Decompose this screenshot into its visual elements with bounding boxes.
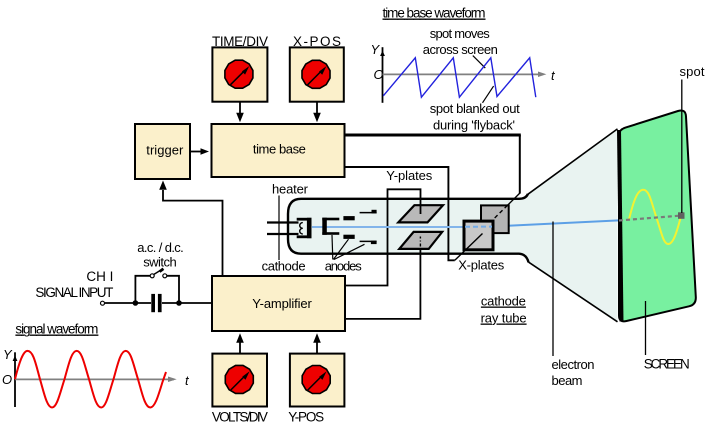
electron beam (dashed behind front X-plate)	[465, 226, 492, 228]
screen left edge (thick)	[619, 130, 622, 322]
cathode ray tube envelope (neck + funnel)	[288, 129, 618, 322]
input terminal	[101, 301, 105, 305]
spot	[678, 212, 685, 219]
switch lever	[154, 269, 164, 275]
TIME/DIV knob	[225, 60, 253, 88]
grey dashed beam on screen	[619, 216, 678, 221]
electron beam pointer line	[552, 222, 554, 357]
svg-text:X-plates: X-plates	[458, 258, 505, 273]
wire trigger to time base with arrow	[190, 151, 203, 153]
svg-text:beam: beam	[552, 373, 583, 388]
svg-text:anodes: anodes	[325, 259, 363, 274]
anodes pointer lines	[331, 235, 334, 260]
dash-dot wire end in bottom Y-plate	[419, 237, 421, 247]
wire TIME/DIV to time base with down arrow	[239, 102, 241, 114]
svg-text:SIGNAL INPUT: SIGNAL INPUT	[35, 285, 113, 300]
svg-text:spot blanked out: spot blanked out	[430, 101, 520, 116]
svg-text:Y: Y	[3, 347, 13, 362]
junction dot left	[133, 300, 139, 306]
svg-text:ray tube: ray tube	[481, 311, 527, 326]
red sine wave	[15, 351, 166, 408]
svg-text:Y-plates: Y-plates	[386, 168, 433, 183]
svg-text:Y: Y	[371, 42, 381, 57]
trigger box	[135, 124, 190, 179]
anode 3 top	[360, 212, 377, 214]
wire Y-amp to Y-POS with up arrow	[316, 342, 318, 353]
switch contact right	[163, 274, 167, 278]
front X-plate	[464, 221, 493, 250]
wire X-POS to time base with down arrow	[316, 102, 318, 114]
screen slab green face	[619, 110, 696, 321]
heater/cathode pointer line	[278, 196, 280, 261]
svg-text:VOLTS/DIV: VOLTS/DIV	[212, 410, 268, 425]
anode 3 bottom	[360, 240, 377, 242]
svg-text:CH I: CH I	[86, 269, 113, 284]
bottom Y-plate	[399, 232, 442, 249]
heater filament squiggle	[300, 223, 303, 234]
capacitor plates	[151, 294, 155, 312]
anode 1 (C-shape)	[322, 218, 339, 221]
svg-text:spot: spot	[680, 64, 705, 79]
time base t axis	[383, 73, 544, 75]
svg-text:trigger: trigger	[146, 143, 184, 158]
spot pointer line	[681, 80, 683, 214]
svg-text:O: O	[374, 67, 384, 82]
signal t axis	[15, 378, 174, 380]
electron beam (funnel segment)	[493, 220, 619, 226]
wire: Y-amp output 2 to bottom Y-plate	[344, 247, 420, 319]
svg-text:Y-amplifier: Y-amplifier	[252, 296, 312, 311]
back X-plate	[481, 205, 509, 233]
svg-text:heater: heater	[272, 182, 309, 197]
svg-text:Y-POS: Y-POS	[288, 410, 324, 425]
Y-amplifier box	[212, 276, 345, 331]
wire: Y-amp output 1 to top Y-plate (staple)	[344, 189, 421, 285]
pointer to falling edge	[483, 86, 494, 103]
svg-text:across screen: across screen	[423, 42, 498, 57]
cathode	[297, 218, 312, 221]
svg-text:signal waveform: signal waveform	[15, 322, 98, 337]
VOLTS/DIV knob	[225, 365, 253, 393]
anode 2 bars	[343, 216, 354, 220]
switch branch wires	[135, 276, 150, 303]
wire diagonal into front X-plate	[455, 234, 483, 261]
input wire right of capacitor	[162, 302, 212, 304]
X-POS knob box	[290, 47, 344, 101]
wire: time base output 2 to front X-plate	[344, 167, 455, 260]
svg-text:a.c. / d.c.: a.c. / d.c.	[137, 240, 184, 255]
electron beam (neck segment)	[312, 226, 464, 228]
TIME/DIV knob box	[212, 47, 267, 101]
top Y-plate	[398, 205, 443, 222]
X-POS knob	[302, 60, 330, 88]
VOLTS/DIV knob box	[212, 354, 267, 407]
svg-text:electron: electron	[552, 357, 595, 372]
Y-POS knob	[302, 365, 330, 393]
pointer to rising slope	[473, 56, 486, 69]
svg-text:TIME/DIV: TIME/DIV	[212, 34, 268, 49]
svg-text:spot moves: spot moves	[430, 26, 491, 41]
input wire left of capacitor	[105, 302, 151, 304]
wire: time base output 1 to back X-plate	[344, 134, 521, 137]
svg-text:during 'flyback': during 'flyback'	[433, 118, 515, 133]
heater wires	[267, 221, 299, 223]
wire Y-amp to trigger with arrow	[163, 190, 223, 276]
svg-text:time base: time base	[253, 142, 306, 157]
signal waveform Y axis	[14, 352, 16, 407]
svg-text:O: O	[2, 372, 12, 387]
svg-text:SCREEN: SCREEN	[644, 357, 690, 372]
Y-POS knob box	[290, 354, 345, 407]
time base Y axis	[382, 47, 384, 103]
wire Y-amp to VOLTS/DIV with up arrow	[239, 342, 241, 353]
junction dot right	[176, 300, 182, 306]
svg-text:time base waveform: time base waveform	[383, 6, 486, 21]
svg-text:cathode: cathode	[481, 294, 526, 309]
blue sawtooth	[383, 58, 536, 97]
svg-text:cathode: cathode	[262, 259, 306, 274]
svg-text:X-POS: X-POS	[293, 34, 341, 49]
switch contact left	[150, 274, 154, 278]
time base box	[212, 124, 345, 177]
SCREEN pointer line	[645, 301, 647, 355]
svg-text:switch: switch	[143, 255, 177, 270]
dashed wire into back X-plate	[493, 205, 508, 219]
yellow trace on screen	[629, 190, 681, 244]
